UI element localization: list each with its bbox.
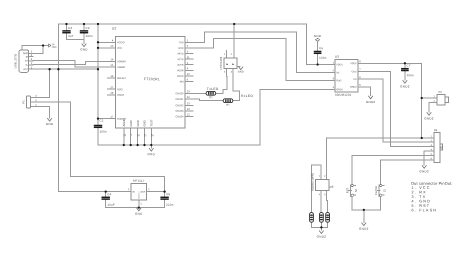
svg-text:3: 3 [324,193,326,196]
svg-text:#RTS: #RTS [177,52,183,55]
svg-text:OSCI: OSCI [117,88,123,91]
svg-text:GND: GND [238,70,244,73]
svg-text:C6: C6 [319,46,323,50]
svg-text:TXD: TXD [179,41,184,44]
svg-text:2: 2 [324,175,326,178]
svg-text:CBUS1: CBUS1 [176,98,185,101]
svg-text:18: 18 [137,134,140,137]
svg-text:100n: 100n [99,130,107,134]
svg-text:6: 6 [187,78,189,82]
svg-text:GND: GND [314,34,322,38]
svg-text:23: 23 [187,89,190,93]
svg-text:Out2: Out2 [336,79,342,82]
svg-text:4: 4 [319,193,321,196]
svg-text:FLASH: FLASH [374,186,378,195]
svg-text:26: 26 [151,134,154,137]
svg-text:GND2: GND2 [424,116,434,120]
svg-text:C1: C1 [99,119,103,123]
svg-text:12: 12 [187,112,190,116]
svg-text:GND: GND [23,53,28,55]
svg-text:GND1: GND1 [336,88,343,91]
svg-text:1: 1 [140,204,142,206]
svg-text:14: 14 [187,107,190,111]
svg-text:1: 1 [187,38,189,42]
svg-text:VCC: VCC [117,47,122,50]
svg-text:#CTS: #CTS [177,58,184,61]
svg-text:4. GND: 4. GND [411,199,431,203]
svg-text:C2: C2 [85,26,89,30]
svg-text:OUT: OUT [141,192,146,194]
svg-text:GND: GND [52,47,57,49]
svg-text:In2: In2 [353,78,357,81]
svg-text:VCC: VCC [23,69,28,71]
svg-text:17: 17 [110,115,113,119]
svg-text:5: 5 [187,44,189,48]
svg-text:GND2: GND2 [359,227,369,231]
svg-text:D+: D+ [25,61,29,63]
svg-text:▸: ▸ [232,62,234,66]
svg-text:▸: ▸ [226,62,228,66]
svg-text:27: 27 [110,85,113,89]
svg-text:19: 19 [110,74,113,78]
svg-text:100n: 100n [85,34,93,38]
svg-text:D-: D- [26,65,29,67]
svg-text:GND: GND [46,122,54,126]
svg-text:3: 3 [187,50,189,54]
svg-text:Out1: Out1 [352,70,358,73]
svg-text:13: 13 [187,101,190,105]
svg-text:CBUS0: CBUS0 [176,92,185,95]
svg-text:16: 16 [110,57,113,61]
svg-text:RXD: RXD [178,47,183,50]
svg-text:USB_OTG: USB_OTG [14,54,18,69]
svg-text:USBDM: USBDM [117,60,126,63]
svg-text:15: 15 [110,63,113,67]
svg-text:R1: R1 [226,104,230,107]
svg-text:S1: S1 [383,188,386,192]
svg-text:LM1117: LM1117 [138,191,140,199]
svg-text:#DSR: #DSR [177,69,184,72]
svg-text:P4: P4 [434,128,438,132]
svg-text:TEST: TEST [150,119,154,126]
svg-text:VDD2: VDD2 [350,62,357,65]
svg-text:P3: P3 [438,90,442,94]
svg-text:CBUS2: CBUS2 [176,104,185,107]
svg-text:3: 3 [128,189,130,191]
svg-text:#RESET: #RESET [117,77,127,80]
svg-text:USBDP: USBDP [117,66,126,69]
svg-text:GND: GND [129,120,133,126]
svg-text:B0505S-1WR2: B0505S-1WR2 [311,172,315,190]
svg-text:GND: GND [143,120,147,126]
svg-text:1: 1 [319,175,321,178]
svg-text:CBUS4: CBUS4 [176,115,185,118]
svg-text:GND: GND [136,120,140,126]
svg-text:U2: U2 [112,27,117,31]
svg-text:C3: C3 [68,26,72,30]
svg-text:VCCIO: VCCIO [117,41,125,44]
svg-text:AGND: AGND [122,118,126,126]
svg-text:28: 28 [110,91,113,95]
svg-text:100n: 100n [406,73,414,77]
svg-text:RxLED: RxLED [241,94,253,98]
svg-text:#DCD: #DCD [177,75,184,78]
svg-text:AP1117: AP1117 [133,179,145,183]
svg-text:GND2: GND2 [400,84,410,88]
svg-text:7: 7 [131,134,133,137]
svg-text:GND2: GND2 [350,86,357,89]
svg-text:GND2: GND2 [366,100,376,104]
svg-text:3: 3 [231,70,233,73]
svg-text:100n: 100n [319,56,327,60]
svg-text:ID: ID [26,57,29,59]
svg-text:IN: IN [132,192,135,194]
svg-text:TxLED: TxLED [207,87,219,91]
svg-text:R2: R2 [209,96,213,99]
svg-text:4: 4 [112,38,114,42]
svg-text:#RI: #RI [180,80,184,83]
svg-text:ADUM1201: ADUM1201 [335,93,352,97]
svg-text:In1: In1 [336,71,340,74]
svg-text:OSCO: OSCO [117,94,124,97]
svg-text:LTSTC155: LTSTC155 [219,56,223,69]
svg-text:5. RST: 5. RST [411,204,430,208]
svg-text:20: 20 [110,44,113,48]
svg-text:VDD1: VDD1 [336,63,343,66]
svg-text:21: 21 [144,134,147,137]
svg-text:11: 11 [187,55,190,59]
svg-text:3. TX: 3. TX [411,195,426,199]
svg-text:GND2: GND2 [317,235,327,239]
svg-text:2: 2 [148,189,150,191]
svg-text:GND: GND [148,152,156,156]
svg-text:#DTR: #DTR [177,64,184,67]
svg-text:C4: C4 [107,192,111,196]
svg-text:220n: 220n [166,203,174,207]
svg-text:S2: S2 [355,188,358,192]
svg-text:RST: RST [346,187,350,193]
svg-text:GND: GND [80,47,88,51]
svg-text:P1: P1 [21,100,25,104]
svg-text:GND2: GND2 [419,169,429,173]
svg-text:9: 9 [187,66,189,70]
svg-text:C5: C5 [166,192,170,196]
svg-text:C7: C7 [406,64,410,68]
svg-text:U3: U3 [335,55,339,59]
svg-text:4: 4 [224,70,226,73]
svg-text:CBUS3: CBUS3 [176,110,185,113]
svg-text:-V: -V [333,185,335,188]
svg-text:25: 25 [123,134,126,137]
svg-text:10: 10 [187,72,190,76]
svg-text:FT232RL: FT232RL [144,77,160,81]
svg-text:2. RX: 2. RX [411,190,426,194]
svg-text:4u7: 4u7 [68,34,74,38]
svg-text:GND: GND [135,212,143,216]
svg-text:2: 2 [187,61,189,65]
svg-text:2: 2 [231,53,233,56]
svg-text:1. VCC: 1. VCC [411,186,430,190]
svg-text:6. FLASH: 6. FLASH [411,208,437,212]
svg-text:1: 1 [224,53,226,56]
svg-text:22: 22 [187,95,190,99]
svg-text:10uF: 10uF [107,203,115,207]
